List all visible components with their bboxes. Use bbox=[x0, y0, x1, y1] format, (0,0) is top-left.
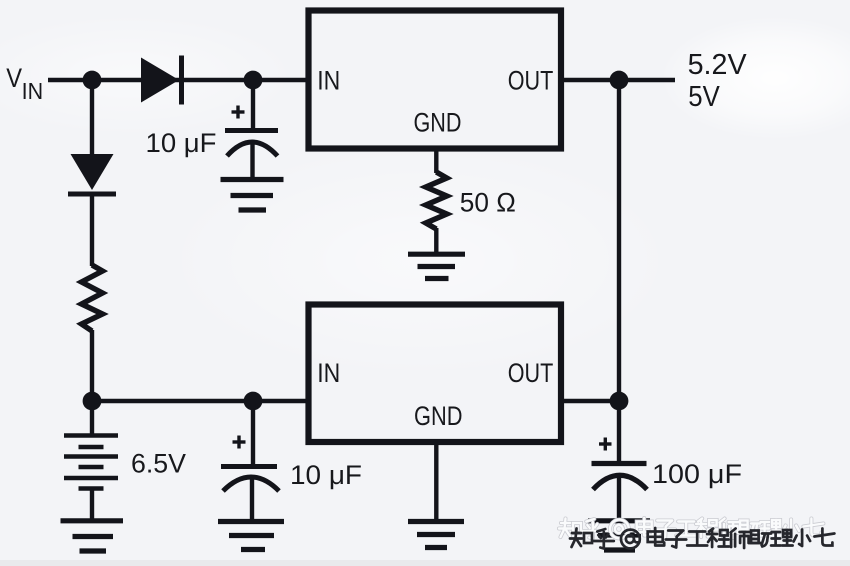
svg-text:100 μF: 100 μF bbox=[652, 459, 742, 489]
capacitor C3 plus sign bbox=[599, 438, 612, 451]
ground under capacitor C2 bbox=[218, 522, 284, 550]
node VIN label bbox=[6, 63, 43, 104]
svg-text:GND: GND bbox=[414, 401, 463, 431]
capacitor C3 100uF bbox=[592, 464, 648, 490]
svg-text:6.5V: 6.5V bbox=[131, 449, 186, 479]
wire node F down to capacitor C3 bbox=[617, 401, 621, 462]
label 50 ohm bbox=[460, 187, 516, 217]
capacitor C2 10uF bbox=[221, 467, 279, 492]
wire U2 GND down to ground bbox=[434, 442, 438, 520]
svg-text:GND: GND bbox=[414, 107, 462, 137]
node C junction dot bbox=[83, 392, 102, 411]
svg-text:10 μF: 10 μF bbox=[290, 460, 362, 490]
wire node B down to capacitor C1 bbox=[251, 80, 255, 129]
label 10uF top bbox=[146, 128, 217, 158]
diode D2 bbox=[68, 154, 116, 194]
wire capacitor C2 to ground bbox=[250, 479, 254, 521]
battery BT1 6.5V bbox=[64, 436, 118, 489]
wire U1 OUT to output bbox=[564, 78, 675, 82]
svg-text:50 Ω: 50 Ω bbox=[460, 187, 516, 217]
wire capacitor C3 to ground bbox=[617, 477, 621, 519]
svg-text:OUT: OUT bbox=[508, 358, 554, 388]
wire node D down to capacitor C2 bbox=[251, 401, 255, 465]
wire top rail from VIN to regulator IN bbox=[48, 78, 306, 82]
watermark dark copy bbox=[570, 528, 834, 549]
wire capacitor C1 to ground bbox=[250, 144, 254, 180]
wire resistor R1 to ground bbox=[434, 228, 438, 253]
U1 pin labels bbox=[317, 66, 553, 138]
ground under resistor R1 bbox=[408, 254, 465, 278]
resistor R1 50 ohm bbox=[426, 172, 447, 229]
ground under capacitor C3 bbox=[588, 521, 650, 550]
ground under U2 GND bbox=[408, 522, 464, 548]
svg-text:OUT: OUT bbox=[508, 66, 554, 96]
regulator U1 box bbox=[309, 11, 562, 149]
svg-text:IN: IN bbox=[22, 78, 43, 104]
capacitor C1 10uF bbox=[225, 131, 278, 157]
capacitor C1 10uF plus sign bbox=[232, 106, 245, 119]
wire U2 OUT to node F bbox=[564, 399, 619, 403]
wire from node A down to diode D2 bbox=[90, 80, 94, 155]
diode D1 bbox=[141, 56, 182, 105]
label 5.2V bbox=[688, 49, 748, 113]
wire from diode D2 to resistor R2 bbox=[90, 194, 94, 266]
node F junction dot bbox=[610, 392, 629, 411]
node E junction dot bbox=[610, 71, 629, 90]
svg-text:5.2V: 5.2V bbox=[688, 49, 748, 81]
wire U1 GND down to resistor R1 bbox=[434, 151, 438, 173]
wire bottom rail from node C to regulator U2 IN bbox=[92, 399, 306, 403]
svg-text:5V: 5V bbox=[688, 81, 720, 113]
node B junction dot bbox=[244, 71, 263, 90]
node D junction dot bbox=[244, 392, 263, 411]
wire node C down to battery bbox=[90, 401, 94, 435]
svg-text:IN: IN bbox=[317, 66, 340, 96]
node A junction dot bbox=[83, 71, 102, 90]
resistor R2 bbox=[82, 265, 103, 331]
regulator U2 box bbox=[309, 305, 562, 443]
ground under battery bbox=[61, 521, 124, 551]
watermark light halo copy bbox=[559, 518, 823, 539]
wire battery to ground bbox=[90, 488, 94, 519]
label 6.5V bbox=[131, 449, 186, 479]
svg-text:V: V bbox=[6, 63, 22, 93]
ground under capacitor C1 bbox=[221, 180, 284, 211]
U2 pin labels bbox=[317, 358, 553, 431]
wire node E down to node F bbox=[617, 80, 621, 401]
watermark white copy bbox=[559, 518, 823, 539]
wire from resistor R2 to node C bbox=[90, 330, 94, 401]
capacitor C2 plus sign bbox=[233, 436, 246, 449]
svg-text:10 μF: 10 μF bbox=[146, 128, 217, 158]
label 100uF bbox=[652, 459, 742, 489]
bottom gray strip bbox=[0, 560, 850, 566]
label 10uF bottom bbox=[290, 460, 362, 490]
svg-text:IN: IN bbox=[317, 358, 340, 388]
